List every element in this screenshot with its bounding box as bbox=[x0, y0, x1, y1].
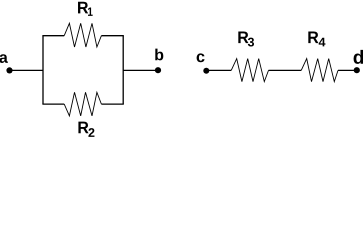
wire top rail right segment bbox=[101, 35, 123, 37]
R4 value label bbox=[308, 31, 325, 46]
wire right rail bbox=[122, 36, 124, 104]
R3 value label bbox=[238, 31, 254, 46]
node d bbox=[354, 67, 360, 73]
node c label bbox=[197, 53, 205, 62]
node d label bbox=[354, 50, 363, 64]
wire R3 to R4 bbox=[269, 69, 302, 71]
resistor R3 bbox=[231, 59, 268, 82]
wire top rail left segment bbox=[42, 35, 64, 37]
wire node a to parallel network bbox=[10, 69, 44, 71]
node b label bbox=[155, 49, 163, 61]
wire bottom rail right segment bbox=[101, 103, 123, 105]
resistor R1 bbox=[64, 23, 101, 47]
R1 value label bbox=[78, 2, 93, 16]
wire left rail bbox=[42, 36, 44, 104]
node b bbox=[155, 67, 161, 73]
node c bbox=[203, 68, 209, 74]
resistor R4 bbox=[301, 59, 338, 82]
R2 value label bbox=[78, 122, 94, 137]
resistor R2 bbox=[64, 92, 101, 116]
node a label bbox=[0, 54, 8, 63]
wire R4 to node d bbox=[338, 69, 357, 71]
wire bottom rail left segment bbox=[42, 103, 64, 105]
wire parallel network to node b bbox=[123, 69, 158, 71]
node a bbox=[6, 67, 12, 73]
wire node c to R3 bbox=[206, 69, 231, 71]
